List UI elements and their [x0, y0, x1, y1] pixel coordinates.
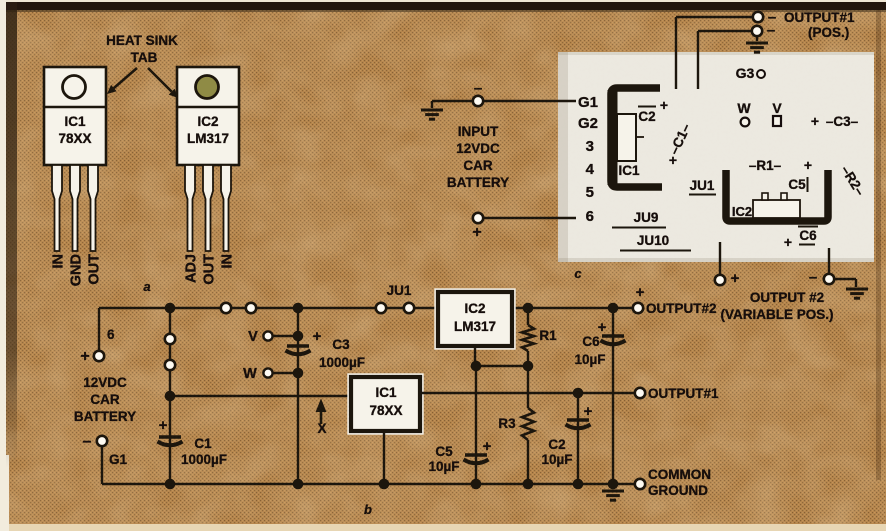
svg-text:C1: C1: [194, 436, 212, 451]
svg-text:78XX: 78XX: [369, 403, 402, 418]
svg-text:10µF: 10µF: [574, 352, 605, 367]
svg-text:COMMON: COMMON: [648, 467, 711, 482]
svg-text:+: +: [660, 97, 668, 113]
svg-text:C5: C5: [788, 177, 806, 192]
svg-text:(POS.): (POS.): [808, 25, 849, 40]
svg-text:–: –: [809, 269, 817, 286]
svg-text:G3: G3: [736, 65, 755, 81]
svg-text:–C3–: –C3–: [826, 114, 859, 129]
svg-text:GND: GND: [69, 254, 85, 286]
svg-text:c: c: [574, 266, 582, 281]
svg-text:CAR: CAR: [90, 392, 119, 407]
svg-text:G2: G2: [578, 115, 598, 132]
svg-text:V: V: [772, 100, 782, 116]
svg-text:W: W: [737, 100, 751, 116]
svg-text:OUT: OUT: [87, 254, 103, 285]
svg-text:IC2: IC2: [732, 204, 752, 219]
svg-text:OUTPUT #2: OUTPUT #2: [750, 290, 824, 305]
svg-text:C2: C2: [548, 437, 565, 452]
svg-text:1000µF: 1000µF: [319, 355, 365, 370]
svg-text:+: +: [584, 403, 593, 420]
svg-text:+: +: [472, 224, 481, 241]
svg-text:C3: C3: [332, 337, 350, 352]
svg-text:W: W: [243, 366, 257, 382]
svg-text:–R1–: –R1–: [749, 158, 782, 173]
svg-text:CAR: CAR: [463, 158, 492, 173]
svg-text:TAB: TAB: [131, 50, 158, 65]
svg-text:BATTERY: BATTERY: [74, 409, 136, 424]
svg-text:C6: C6: [799, 228, 817, 243]
svg-text:12VDC: 12VDC: [83, 375, 127, 390]
svg-text:+: +: [731, 270, 740, 287]
svg-text:V: V: [248, 329, 258, 345]
svg-text:5: 5: [586, 184, 594, 201]
svg-text:C5: C5: [435, 444, 453, 459]
svg-text:OUTPUT#1: OUTPUT#1: [648, 386, 719, 401]
svg-text:10µF: 10µF: [541, 452, 572, 467]
svg-text:+: +: [80, 348, 89, 365]
svg-text:b: b: [364, 502, 372, 517]
svg-text:6: 6: [586, 208, 594, 225]
svg-text:R3: R3: [498, 416, 516, 431]
svg-text:+: +: [784, 234, 792, 250]
svg-text:JU1: JU1: [690, 178, 715, 193]
svg-text:+: +: [159, 417, 168, 434]
svg-text:BATTERY: BATTERY: [447, 175, 509, 190]
svg-text:G1: G1: [578, 94, 598, 111]
svg-text:1000µF: 1000µF: [181, 452, 227, 467]
svg-text:(VARIABLE POS.): (VARIABLE POS.): [720, 307, 833, 322]
svg-text:–: –: [767, 22, 775, 39]
svg-text:10µF: 10µF: [428, 459, 459, 474]
svg-text:IC1: IC1: [375, 385, 397, 400]
svg-text:LM317: LM317: [187, 131, 229, 146]
svg-text:LM317: LM317: [454, 319, 496, 334]
svg-text:3: 3: [586, 138, 594, 155]
svg-text:X: X: [317, 421, 326, 436]
svg-text:a: a: [143, 279, 150, 294]
svg-text:–: –: [83, 433, 92, 450]
svg-text:4: 4: [586, 161, 595, 178]
svg-text:R1: R1: [539, 328, 557, 343]
svg-text:+: +: [804, 157, 812, 173]
svg-text:JU9: JU9: [634, 210, 659, 225]
svg-text:JU1: JU1: [387, 283, 412, 298]
svg-text:HEAT SINK: HEAT SINK: [106, 33, 178, 48]
svg-text:12VDC: 12VDC: [456, 141, 500, 156]
svg-text:G1: G1: [109, 452, 128, 467]
svg-text:6: 6: [107, 327, 115, 342]
svg-text:IN: IN: [51, 254, 67, 269]
svg-text:JU10: JU10: [637, 233, 669, 248]
svg-text:GROUND: GROUND: [648, 483, 708, 498]
svg-text:IC2: IC2: [197, 114, 218, 129]
svg-text:OUT: OUT: [202, 254, 218, 285]
svg-text:OUTPUT#2: OUTPUT#2: [646, 301, 717, 316]
svg-text:INPUT: INPUT: [458, 124, 499, 139]
svg-text:IC1: IC1: [618, 163, 640, 178]
svg-text:78XX: 78XX: [58, 131, 91, 146]
svg-text:IC1: IC1: [64, 114, 86, 129]
svg-text:C6: C6: [582, 334, 600, 349]
svg-text:–: –: [474, 80, 482, 97]
svg-text:C2: C2: [638, 109, 655, 124]
svg-text:+: +: [483, 438, 492, 455]
svg-text:+: +: [313, 328, 322, 345]
svg-text:IN: IN: [220, 254, 236, 269]
svg-text:IC2: IC2: [464, 301, 485, 316]
svg-text:+: +: [636, 284, 645, 301]
svg-text:+: +: [811, 113, 819, 129]
svg-text:ADJ: ADJ: [184, 254, 200, 283]
svg-text:+: +: [669, 152, 677, 168]
svg-text:OUTPUT#1: OUTPUT#1: [784, 10, 855, 25]
